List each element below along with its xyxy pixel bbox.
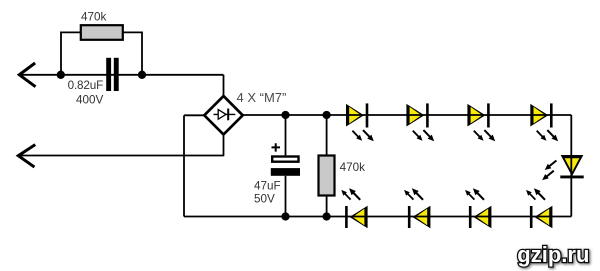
wire: R2 top lead: [326, 115, 328, 156]
LED D2 top row 1: [346, 103, 376, 143]
wire: bottom AC line y=155.5: [18, 155, 224, 157]
svg-text:47uF: 47uF: [254, 179, 281, 192]
bridge rectifier D1 diamond: [204, 96, 242, 135]
capacitor C1 plate left: [106, 58, 111, 91]
wire: top AC line y=75: [19, 74, 224, 76]
wire: bridge left vertex to left rail: [184, 114, 204, 116]
capacitor C1 plate right: [114, 58, 119, 91]
wire: top rail from bridge right vertex: [243, 114, 572, 116]
wire: R2 bottom lead: [326, 196, 328, 217]
svg-text:0.82uF: 0.82uF: [68, 79, 104, 92]
node: junction dot left: [57, 71, 65, 79]
LED D7 bottom row 1: [339, 186, 367, 228]
capacitor C2 plus sign: [272, 143, 281, 151]
wire: right vertical: [570, 115, 572, 217]
capacitor C2 top plate: [272, 157, 298, 162]
wire: C2 top lead: [285, 115, 287, 155]
node: top rail dot at C2: [281, 111, 289, 119]
bridge inner diode line: [214, 113, 236, 115]
svg-text:4 X “M7”: 4 X “M7”: [237, 90, 287, 105]
LED D8 bottom row 2: [402, 186, 430, 228]
resistor R1 body: [81, 25, 123, 40]
LED D9 bottom row 3: [463, 186, 491, 228]
bridge inner diode triangle: [218, 110, 226, 120]
resistor R2 body: [319, 156, 335, 196]
AC input arrow top: [19, 64, 34, 86]
wire: vertical into bridge top: [223, 75, 225, 97]
wire: bottom rail: [184, 216, 571, 218]
svg-text:470k: 470k: [340, 161, 366, 174]
svg-text:470k: 470k: [81, 10, 107, 23]
LED D6 right side pointing down: [540, 155, 583, 182]
LED D3 top row 2: [406, 103, 436, 143]
node: junction dot right: [138, 71, 146, 79]
bridge inner diode bar: [227, 109, 229, 121]
wire: vertical from bridge bottom: [223, 134, 225, 156]
wire: left vertical down: [183, 115, 185, 216]
LED D4 top row 3: [467, 103, 497, 143]
capacitor C2 bottom plate: [271, 168, 300, 176]
wire: C2 bottom lead: [285, 176, 287, 217]
svg-text:50V: 50V: [254, 192, 275, 205]
node: bottom rail dot at R2: [322, 212, 330, 220]
LED D5 top row 4: [530, 103, 560, 143]
svg-text:400V: 400V: [76, 93, 104, 106]
wire: resistor R1 right lead: [123, 32, 142, 74]
node: top rail dot at R2: [322, 111, 330, 119]
node: bottom rail dot at C2: [281, 212, 289, 220]
svg-text:gzip.ru: gzip.ru: [517, 242, 589, 267]
AC input arrow bottom: [18, 145, 34, 166]
wire: resistor R1 left lead: [61, 32, 81, 74]
LED D10 bottom row 4: [524, 186, 552, 228]
